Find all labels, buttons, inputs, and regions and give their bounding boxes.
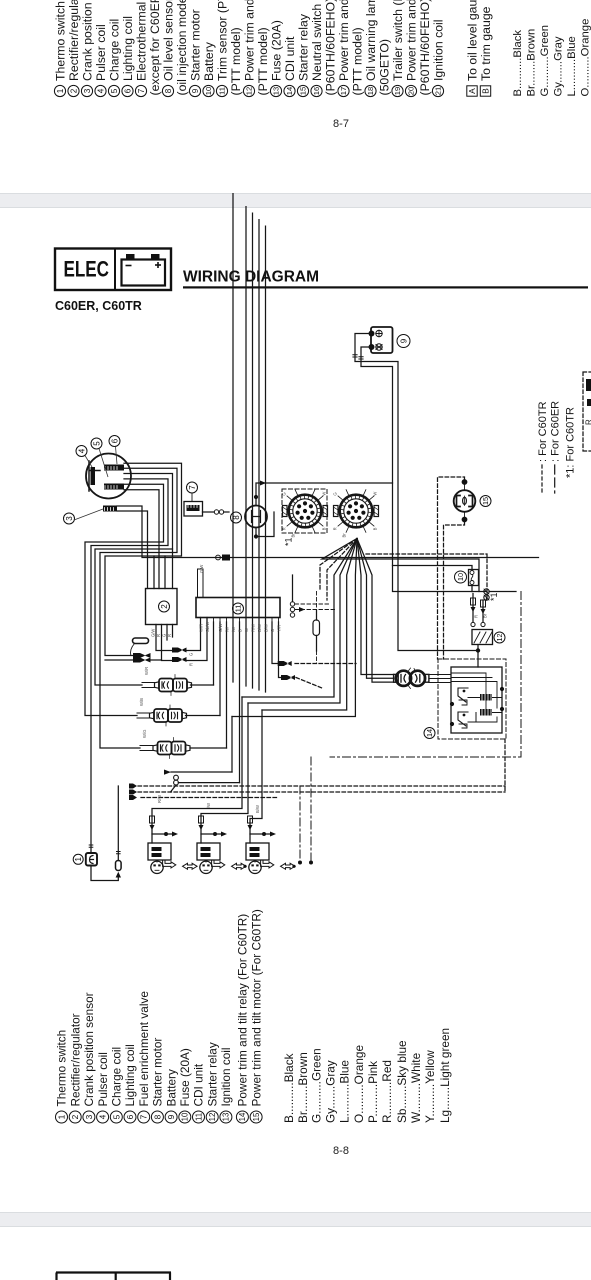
svg-text:G/W: G/W <box>199 565 204 573</box>
svg-text:15: 15 <box>481 497 490 505</box>
svg-text:R: R <box>167 634 172 637</box>
svg-text:Sb/W: Sb/W <box>205 622 210 632</box>
svg-text:Fuel enrichment valve: Fuel enrichment valve <box>137 991 151 1107</box>
svg-text:O.........Orange: O.........Orange <box>352 1045 366 1123</box>
svg-text:*1: For C60TR: *1: For C60TR <box>564 407 576 478</box>
svg-text:19: 19 <box>393 87 402 95</box>
svg-text:15: 15 <box>299 87 308 95</box>
svg-text:3: 3 <box>83 88 92 93</box>
svg-text:Lighting coil: Lighting coil <box>123 1044 137 1106</box>
svg-text:5: 5 <box>111 1114 121 1119</box>
svg-text:Rectifier/regulator: Rectifier/regulator <box>67 0 81 81</box>
svg-text:Y..........Yellow: Y..........Yellow <box>423 1050 437 1123</box>
svg-text:10: 10 <box>204 87 213 95</box>
svg-text:10: 10 <box>456 573 465 581</box>
svg-text:7: 7 <box>188 485 197 490</box>
svg-text:2: 2 <box>70 1114 80 1119</box>
svg-text:Br: Br <box>291 533 296 538</box>
svg-text:To trim gauge: To trim gauge <box>479 6 493 81</box>
svg-text:3: 3 <box>65 516 74 521</box>
svg-text:W: W <box>244 628 249 632</box>
svg-text:B: B <box>237 629 242 632</box>
svg-text:W/G: W/G <box>142 730 147 738</box>
svg-text:Power trim and tilt relay: Power trim and tilt relay <box>337 0 351 81</box>
svg-text:12: 12 <box>208 1113 217 1122</box>
svg-text:Lighting coil: Lighting coil <box>121 16 135 81</box>
svg-text:A: A <box>467 88 477 94</box>
svg-text:G..........Green: G..........Green <box>310 1048 324 1123</box>
svg-text:WIRING DIAGRAM: WIRING DIAGRAM <box>183 269 319 286</box>
svg-text:Starter motor: Starter motor <box>188 9 202 81</box>
svg-text:/W: /W <box>206 803 211 808</box>
svg-text:O..........Orange: O..........Orange <box>580 19 591 97</box>
svg-text:C60ER, C60TR: C60ER, C60TR <box>55 299 142 313</box>
svg-text:Fuse (20A): Fuse (20A) <box>178 1048 192 1106</box>
svg-text:1: 1 <box>74 857 83 862</box>
svg-text:CDI unit: CDI unit <box>283 36 297 81</box>
svg-text:G/W: G/W <box>218 624 223 632</box>
svg-text:B: B <box>481 88 491 94</box>
svg-text:4: 4 <box>77 448 86 453</box>
svg-text:Gy.......Gray: Gy.......Gray <box>553 36 565 96</box>
svg-text:6: 6 <box>110 438 119 443</box>
svg-text:Thermo switch: Thermo switch <box>55 1030 69 1107</box>
svg-text:Power trim and tilt motor (For: Power trim and tilt motor (For C60TR) <box>249 909 263 1106</box>
svg-text:(oil injection model): (oil injection model) <box>175 0 189 96</box>
svg-text:Lg.......Light green: Lg.......Light green <box>438 1028 452 1123</box>
svg-text:R: R <box>188 663 193 666</box>
svg-text:6: 6 <box>125 1114 135 1119</box>
svg-text:Starter relay: Starter relay <box>205 1042 219 1106</box>
svg-text:8-8: 8-8 <box>333 1145 349 1157</box>
svg-text:W/R: W/R <box>198 624 203 632</box>
svg-text:*1: *1 <box>489 592 499 601</box>
svg-text:R/W: R/W <box>250 624 255 632</box>
svg-text:ELEC: ELEC <box>64 257 110 282</box>
svg-text:13: 13 <box>222 1113 231 1122</box>
svg-text:16: 16 <box>312 87 321 95</box>
svg-text:: For C60TR: : For C60TR <box>537 401 549 462</box>
svg-text:Neutral switch: Neutral switch <box>310 4 324 81</box>
svg-text:17: 17 <box>339 87 348 95</box>
svg-text:R: R <box>333 527 338 530</box>
svg-text:12: 12 <box>245 87 254 95</box>
svg-text:(50GETO): (50GETO) <box>377 39 391 96</box>
svg-text:Battery: Battery <box>202 41 216 81</box>
svg-text:W: W <box>322 492 327 496</box>
svg-text:R/W: R/W <box>157 795 162 803</box>
svg-text:Starter relay: Starter relay <box>296 13 310 81</box>
svg-text:Crank position sensor: Crank position sensor <box>82 992 96 1106</box>
svg-text:Fuse (20A): Fuse (20A) <box>269 20 283 81</box>
svg-text:(PTT model): (PTT model) <box>350 27 364 95</box>
svg-text:12: 12 <box>495 634 504 642</box>
svg-text:8-7: 8-7 <box>333 118 349 130</box>
svg-text:R..........Red: R..........Red <box>380 1060 394 1123</box>
svg-text:B: B <box>373 527 378 530</box>
svg-text:11: 11 <box>194 1113 203 1121</box>
svg-text:W: W <box>373 492 378 496</box>
svg-text:Rectifier/regulator: Rectifier/regulator <box>68 1013 82 1106</box>
svg-text:*1: *1 <box>284 537 294 546</box>
svg-text:Br: Br <box>342 533 347 538</box>
svg-text:8: 8 <box>164 88 173 93</box>
svg-text:G/W: G/W <box>150 629 155 637</box>
svg-text:18: 18 <box>366 87 375 95</box>
svg-text:/W: /W <box>224 627 229 632</box>
svg-text:G: G <box>161 634 166 637</box>
svg-text:W/R: W/R <box>144 667 149 675</box>
svg-text:6: 6 <box>124 88 133 93</box>
svg-text:20: 20 <box>407 87 416 95</box>
svg-text:L..........Blue: L..........Blue <box>566 36 578 96</box>
svg-text:Charge coil: Charge coil <box>110 1047 124 1107</box>
svg-text:(P60TH/60FEHO): (P60TH/60FEHO) <box>323 0 337 96</box>
svg-text:Br: Br <box>482 613 487 618</box>
svg-text:7: 7 <box>139 1114 149 1119</box>
svg-text:4: 4 <box>97 88 106 93</box>
svg-text:(P60TH/60FEHO): (P60TH/60FEHO) <box>418 0 432 96</box>
svg-text:13: 13 <box>272 87 281 95</box>
svg-text:21: 21 <box>434 87 443 95</box>
svg-text:Pulser coil: Pulser coil <box>94 24 108 81</box>
svg-text:Sb.......Sky blue: Sb.......Sky blue <box>395 1040 409 1123</box>
svg-text:G: G <box>333 492 338 495</box>
svg-text:W/B: W/B <box>139 698 144 706</box>
svg-text:8: 8 <box>232 515 241 520</box>
svg-text:8: 8 <box>152 1114 162 1119</box>
svg-text:Pulser coil: Pulser coil <box>96 1052 110 1106</box>
svg-text:Oil warning lamp: Oil warning lamp <box>364 0 378 81</box>
svg-text:Starter motor: Starter motor <box>151 1038 165 1107</box>
svg-text:Thermo switch: Thermo switch <box>53 1 67 81</box>
svg-text:G..........Green: G..........Green <box>539 25 551 97</box>
svg-text:5: 5 <box>92 441 101 446</box>
svg-text:7: 7 <box>137 88 146 93</box>
svg-text:Power trim and tilt relay (For: Power trim and tilt relay (For C60TR) <box>236 914 250 1107</box>
svg-text:Trim sensor (PTT model): Trim sensor (PTT model) <box>215 0 229 81</box>
svg-text:9: 9 <box>399 338 408 343</box>
svg-text:P..........Pink: P..........Pink <box>366 1061 380 1123</box>
svg-text:(except for C60ER): (except for C60ER) <box>148 0 162 96</box>
svg-text:B/W: B/W <box>263 624 268 632</box>
svg-text:B..........Black: B..........Black <box>282 1053 296 1123</box>
svg-text:Br........Brown: Br........Brown <box>526 29 538 97</box>
svg-text:B: B <box>322 527 327 530</box>
svg-text:B..........Black: B..........Black <box>512 30 524 97</box>
svg-text:2: 2 <box>160 604 169 609</box>
svg-text:To oil level gauge: To oil level gauge <box>465 0 479 81</box>
svg-text:Gy.......Gray: Gy.......Gray <box>324 1060 338 1123</box>
svg-text:Charge coil: Charge coil <box>107 19 121 81</box>
svg-text:9: 9 <box>191 88 200 93</box>
svg-text:Power trim and tilt relay: Power trim and tilt relay <box>242 0 256 81</box>
svg-text:4: 4 <box>98 1114 108 1119</box>
svg-text:Y/R: Y/R <box>276 625 281 632</box>
svg-text:11: 11 <box>218 87 227 95</box>
svg-text:Electrothermal valve: Electrothermal valve <box>134 0 148 81</box>
svg-text:9: 9 <box>166 1114 176 1119</box>
svg-text:Ignition coil: Ignition coil <box>219 1047 233 1106</box>
svg-text:Br........Brown: Br........Brown <box>296 1052 310 1123</box>
svg-text:14: 14 <box>238 1112 247 1121</box>
svg-text:Crank position sensor: Crank position sensor <box>80 0 94 81</box>
svg-text:R: R <box>585 419 591 425</box>
svg-text:14: 14 <box>285 87 294 95</box>
svg-text:R: R <box>282 527 287 530</box>
svg-text:Battery: Battery <box>164 1069 178 1106</box>
svg-text:3: 3 <box>84 1114 94 1119</box>
svg-text:(PTT model): (PTT model) <box>256 27 270 95</box>
svg-text:14: 14 <box>425 729 434 737</box>
svg-text:2: 2 <box>70 88 79 93</box>
svg-text:10: 10 <box>181 1112 190 1121</box>
svg-text:CDI unit: CDI unit <box>192 1063 206 1106</box>
svg-text:B/W: B/W <box>257 624 262 632</box>
svg-text:5: 5 <box>110 88 119 93</box>
svg-text:G: G <box>188 653 193 656</box>
svg-text:1: 1 <box>56 88 65 93</box>
svg-text:: For C60ER: : For C60ER <box>550 401 562 462</box>
svg-text:R: R <box>156 634 161 637</box>
svg-text:(PTT model): (PTT model) <box>229 27 243 95</box>
svg-text:Ignition coil: Ignition coil <box>431 19 445 81</box>
svg-text:R: R <box>473 615 478 618</box>
svg-text:Trailer switch (PTT model): Trailer switch (PTT model) <box>391 0 405 81</box>
svg-text:15: 15 <box>252 1112 261 1121</box>
svg-text:B/W: B/W <box>255 805 260 813</box>
svg-text:Power trim and tilt motor: Power trim and tilt motor <box>404 0 418 81</box>
svg-text:Oil level sensor: Oil level sensor <box>161 0 175 81</box>
svg-text:L..........Blue: L..........Blue <box>338 1060 352 1123</box>
svg-text:W.........White: W.........White <box>409 1052 423 1123</box>
svg-text:11: 11 <box>234 605 243 612</box>
svg-text:G: G <box>282 492 287 495</box>
svg-text:/W: /W <box>231 627 236 632</box>
svg-text:1: 1 <box>57 1114 67 1119</box>
